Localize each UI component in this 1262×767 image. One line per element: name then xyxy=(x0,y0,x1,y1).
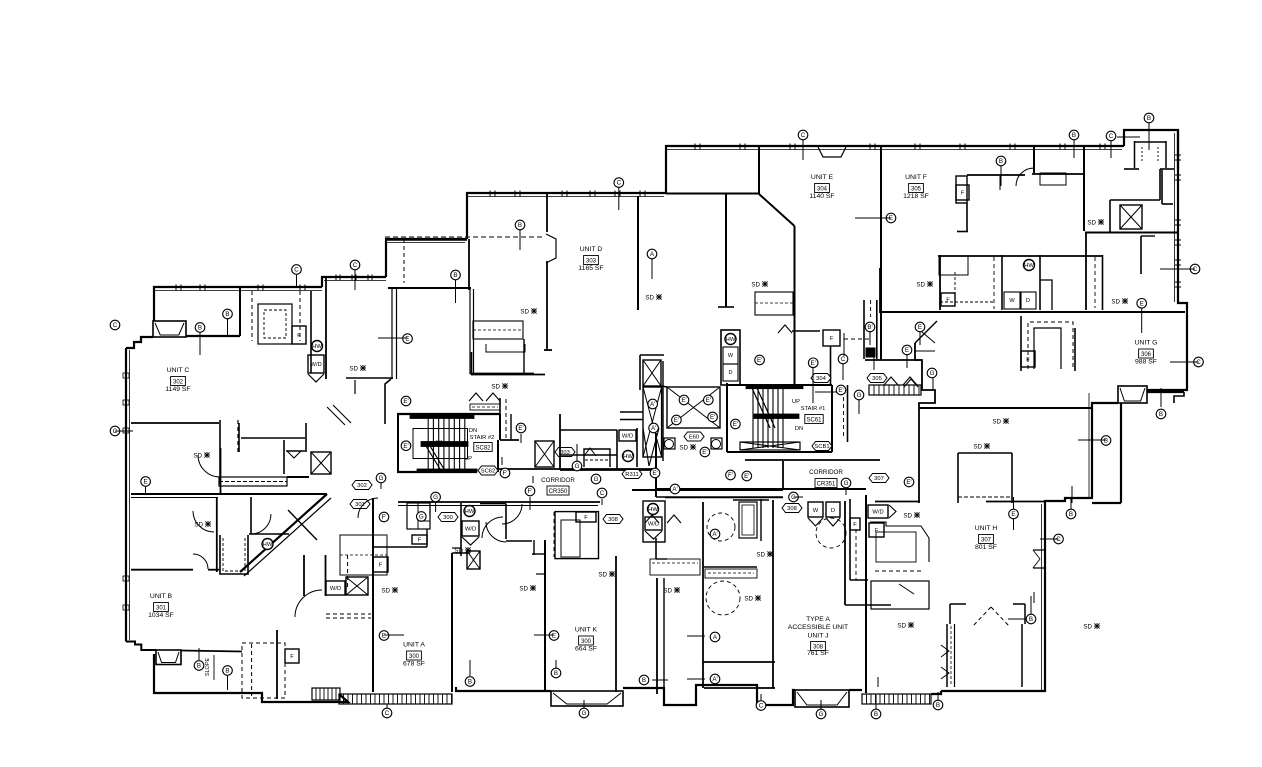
W/D unit K xyxy=(645,517,662,530)
stair #2 break diagonal xyxy=(426,446,442,472)
shelf chevron xyxy=(778,325,792,333)
leader tick xyxy=(227,319,229,337)
door arc unit A entry xyxy=(482,517,503,538)
wall x656 mid xyxy=(655,538,657,559)
grid bubble B xyxy=(223,309,233,319)
unit A dashed closet line xyxy=(860,505,862,600)
svg-text:F': F' xyxy=(503,470,508,477)
leader tick xyxy=(115,430,133,432)
svg-text:G: G xyxy=(930,370,935,377)
svg-text:E': E' xyxy=(403,398,408,405)
closet dashed y497 xyxy=(958,496,1012,498)
svg-text:STAIR #1: STAIR #1 xyxy=(801,406,826,412)
unit D bed xyxy=(473,321,523,339)
dashed x300 unit C kitchen xyxy=(299,291,301,341)
svg-text:SD: SD xyxy=(679,444,688,451)
grid bubble E' xyxy=(742,471,752,481)
svg-text:SC61: SC61 xyxy=(806,417,822,423)
svg-text:UNIT G: UNIT G xyxy=(1135,340,1158,347)
svg-text:B: B xyxy=(1072,132,1076,139)
fridge F unit K xyxy=(576,512,596,522)
closet room west wall xyxy=(471,352,473,375)
svg-text:G: G xyxy=(857,392,862,399)
svg-text:B: B xyxy=(1104,438,1108,445)
svg-text:E: E xyxy=(889,215,893,222)
leader tick xyxy=(378,337,408,339)
tub unit center-bottom xyxy=(739,502,757,538)
dashed chase x506 xyxy=(505,399,507,440)
door tag 300 xyxy=(438,513,458,522)
svg-text:1149 SF: 1149 SF xyxy=(165,386,190,393)
wall jog y204 xyxy=(1162,203,1173,205)
grid bubble B' xyxy=(865,322,875,332)
svg-text:SD: SD xyxy=(751,281,760,288)
grid bubble C xyxy=(756,701,766,711)
wall unit C / unit D (double line a) xyxy=(391,289,393,379)
grid bubble G xyxy=(431,492,441,502)
grid bubble G xyxy=(816,709,826,719)
leader tick xyxy=(198,648,200,660)
svg-text:305: 305 xyxy=(872,376,882,382)
wall y500 above tub xyxy=(733,499,769,501)
grid tick B x1072 xyxy=(1071,486,1073,503)
svg-text:G: G xyxy=(379,475,384,482)
grid bubble E xyxy=(141,477,151,487)
svg-text:CR350: CR350 xyxy=(549,489,568,495)
svg-text:HW: HW xyxy=(312,344,322,350)
svg-text:E': E' xyxy=(702,449,707,456)
grid bubble C xyxy=(838,354,848,364)
svg-text:E': E' xyxy=(706,397,711,404)
wall x427 unit A xyxy=(426,529,428,547)
wall y360 unit F bottom xyxy=(865,359,921,361)
shelf chevron xyxy=(667,515,681,523)
shelf chevron xyxy=(903,377,917,385)
W/D unit C xyxy=(308,355,324,373)
grid bubble E xyxy=(902,345,912,355)
grid bubble C xyxy=(597,488,607,498)
unit F top-right room walls xyxy=(1034,148,1085,232)
unit K kitchen room xyxy=(555,512,599,559)
svg-text:664 SF: 664 SF xyxy=(575,646,597,653)
corridor wall y412 stub xyxy=(620,411,643,413)
leader tick xyxy=(1117,136,1140,138)
wall x500 above stair2 xyxy=(499,398,501,414)
double door dashed unit H bottom xyxy=(973,607,991,626)
chase dashed x870 xyxy=(870,300,872,317)
dark chase box xyxy=(866,348,875,357)
leader tick xyxy=(1110,141,1112,158)
closet wall unit D x547 upper xyxy=(546,193,548,232)
hex tag SCB1 xyxy=(812,442,832,451)
svg-text:G: G xyxy=(819,711,824,718)
unit C HW + W/D xyxy=(310,291,312,373)
grid bubble F' xyxy=(726,470,736,480)
svg-text:B: B xyxy=(1147,115,1151,122)
grid bubble A' xyxy=(710,529,720,539)
wall unit D bedroom2 east xyxy=(725,194,727,307)
kitchen island dashed U xyxy=(1028,322,1073,369)
bath wall x1040 xyxy=(1039,255,1041,310)
grid bubble B xyxy=(1156,409,1166,419)
leader tick xyxy=(687,635,705,637)
leader tick xyxy=(420,520,430,522)
grid bubble F' xyxy=(525,486,535,496)
elevator X-box center xyxy=(667,387,720,428)
svg-text:A': A' xyxy=(650,401,655,408)
exterior wall: west wing north side xyxy=(154,287,322,321)
wall unit D living west (grid A) xyxy=(637,196,639,310)
leader tick xyxy=(687,678,705,680)
grid bubble E xyxy=(886,213,896,223)
grid bubble B xyxy=(996,156,1006,166)
wall unit K west x545 xyxy=(544,540,546,692)
svg-text:SD: SD xyxy=(897,622,906,629)
svg-text:CORRIDOR: CORRIDOR xyxy=(809,469,843,476)
porch steps unit B xyxy=(312,688,340,700)
svg-text:SC82: SC82 xyxy=(475,445,491,451)
chase dashed x1095 xyxy=(1094,257,1096,308)
leader tick xyxy=(354,270,356,290)
unit B closet dashed xyxy=(242,643,285,698)
svg-text:E': E' xyxy=(710,414,715,421)
svg-text:SCB1: SCB1 xyxy=(814,444,829,450)
wall x1141 right section xyxy=(1140,236,1142,274)
center core HW closet xyxy=(721,330,740,385)
kitchenette counter left xyxy=(650,559,700,575)
grid bubble E' xyxy=(808,358,818,368)
bay window unit K south xyxy=(551,691,623,706)
wall x306 xyxy=(305,423,307,452)
door tag 308 xyxy=(603,515,623,524)
leader tick xyxy=(520,434,522,443)
corridor CR350/351 lower walls xyxy=(656,488,783,490)
lobby door leaf xyxy=(649,428,659,466)
water heater HW unit A xyxy=(464,506,475,517)
leader tick xyxy=(815,391,837,393)
grid bubble C xyxy=(1190,264,1200,274)
hex tag SC62 xyxy=(478,466,498,475)
wall unit H west x845 xyxy=(844,501,846,605)
leader tick xyxy=(1179,268,1195,270)
stair1 break diagonal xyxy=(752,388,770,428)
door arc unit B closet xyxy=(295,590,322,617)
svg-text:SD: SD xyxy=(381,587,390,594)
wall y423 unit C lower room xyxy=(131,422,219,424)
W/D bottom center xyxy=(326,581,345,595)
grid bubble E' xyxy=(704,395,714,405)
svg-text:F: F xyxy=(297,333,301,339)
top-right stair room xyxy=(1124,130,1178,169)
svg-text:R311: R311 xyxy=(625,472,638,478)
svg-text:E': E' xyxy=(733,421,738,428)
fridge F unit G island xyxy=(1021,351,1035,367)
wall y378 unit C/D room xyxy=(346,377,393,379)
grid bubble B xyxy=(1101,436,1111,446)
leader tick xyxy=(877,677,879,687)
stair1 top edge band xyxy=(746,386,803,389)
svg-text:G: G xyxy=(575,463,580,470)
svg-text:F: F xyxy=(290,654,294,660)
leader tick xyxy=(1187,361,1199,363)
leader tick xyxy=(1008,618,1026,620)
svg-text:307: 307 xyxy=(981,537,992,543)
grid bubble E' xyxy=(700,447,710,457)
svg-text:UNIT H: UNIT H xyxy=(975,525,998,532)
wall y240 below dashed xyxy=(385,239,467,241)
fridge F unit H xyxy=(869,523,884,537)
svg-text:761 SF: 761 SF xyxy=(807,650,829,657)
water heater HW center xyxy=(725,334,736,345)
wall x1162 below top-right room xyxy=(1161,170,1163,204)
svg-text:B: B xyxy=(1029,616,1033,623)
leader tick xyxy=(875,703,877,709)
wall unit A east x452 xyxy=(451,553,453,692)
svg-text:1034 SF: 1034 SF xyxy=(148,612,174,619)
grid bubble B xyxy=(871,709,881,719)
svg-text:G: G xyxy=(791,494,796,501)
closet room y374 wall xyxy=(471,374,545,376)
grid bubble G xyxy=(591,474,601,484)
kitchen island west wall xyxy=(1020,316,1022,371)
svg-text:W/D: W/D xyxy=(330,586,341,592)
svg-text:B: B xyxy=(197,663,201,670)
wall unit F entry y175 xyxy=(967,174,1025,176)
grid bubble E xyxy=(549,631,559,641)
grid bubble B xyxy=(515,220,525,230)
unit E bed xyxy=(755,292,793,315)
svg-text:305: 305 xyxy=(911,186,922,192)
svg-text:304: 304 xyxy=(816,376,826,382)
wall x773 unit J west xyxy=(772,500,774,688)
wall unit G bedroom south y408 xyxy=(919,407,1092,409)
svg-text:SD: SD xyxy=(1083,623,1092,630)
kitchen counter unit H xyxy=(870,522,929,562)
door arc unit F top room xyxy=(1016,168,1034,186)
leader tick xyxy=(1013,497,1015,509)
grid bubble C xyxy=(798,130,808,140)
svg-text:UP: UP xyxy=(464,456,472,462)
grid bubble G xyxy=(417,512,427,522)
grid bubble G xyxy=(376,473,386,483)
closet wall x1012 xyxy=(1011,453,1013,503)
svg-text:G: G xyxy=(582,710,587,717)
svg-text:G: G xyxy=(419,514,424,521)
svg-text:F': F' xyxy=(728,472,733,479)
leader tick xyxy=(922,332,935,343)
dashed counter unit E xyxy=(844,338,869,340)
closet wall x1022 unit H xyxy=(1021,624,1023,687)
louvre diagonals right of kitchen xyxy=(327,407,345,425)
entry notch unit E top xyxy=(818,147,846,157)
grid bubble A' xyxy=(649,423,659,433)
wall unit G north y312 xyxy=(880,311,1185,313)
W/D unit A xyxy=(462,521,479,536)
leader tick xyxy=(937,694,939,700)
svg-text:C: C xyxy=(113,322,118,329)
svg-text:SD: SD xyxy=(194,521,203,528)
wall y662 A-column xyxy=(703,661,775,663)
door arc unit K entry b xyxy=(502,504,522,524)
svg-text:SD: SD xyxy=(1111,298,1120,305)
corridor CR350 south wall inner xyxy=(398,505,598,507)
stair #2 room walls xyxy=(397,413,500,415)
leader tick xyxy=(1160,388,1162,407)
svg-text:1218 SF: 1218 SF xyxy=(903,193,929,200)
leader tick xyxy=(651,259,653,279)
closet wall x947 unit H xyxy=(946,624,948,687)
kitchen dashed unit F xyxy=(940,301,994,303)
diagonal wall unit B xyxy=(240,494,327,572)
svg-text:SD: SD xyxy=(491,383,500,390)
wall unit H y605 xyxy=(845,604,891,606)
leader tick xyxy=(386,704,388,708)
svg-text:F: F xyxy=(961,191,965,197)
leader tick xyxy=(794,496,804,498)
toilet dashed circles xyxy=(707,513,735,541)
svg-text:W/D: W/D xyxy=(465,527,476,533)
svg-text:B: B xyxy=(1069,511,1073,518)
wall x656 upper xyxy=(655,433,657,497)
door arc unit C bath xyxy=(198,455,220,477)
wall x325 unit B xyxy=(325,555,327,596)
door arc right of 301 xyxy=(358,498,378,518)
stair #2 dark edge bands xyxy=(410,415,474,419)
water heater HW unit K xyxy=(648,504,659,515)
svg-text:C: C xyxy=(617,180,622,187)
svg-text:SD: SD xyxy=(425,440,434,447)
wall cap x726 xyxy=(718,306,734,308)
leader tick xyxy=(199,333,201,355)
wall unit C / unit D (double line b) xyxy=(396,289,398,379)
svg-text:A': A' xyxy=(712,676,717,683)
wall y385 room 304 xyxy=(792,384,832,386)
wall y580 unit J xyxy=(850,579,868,581)
window comb unit H south xyxy=(862,694,931,704)
leader tick xyxy=(1078,439,1106,441)
box label SC82 xyxy=(474,443,492,452)
wall x220 above corridor xyxy=(220,448,222,494)
svg-text:D: D xyxy=(1026,298,1030,304)
grid bubble E' xyxy=(755,355,765,365)
dashed x347 unit B xyxy=(347,555,349,587)
svg-text:SD: SD xyxy=(903,512,912,519)
svg-text:A': A' xyxy=(672,486,677,493)
leader tick xyxy=(858,400,860,414)
leader tick xyxy=(1030,596,1032,614)
window mullions west wall xyxy=(123,373,129,378)
grid bubble E' xyxy=(679,395,689,405)
wall y232 right section xyxy=(1085,232,1179,234)
svg-text:UNIT B: UNIT B xyxy=(150,593,173,600)
wall x616 unit K east xyxy=(615,556,617,692)
unit A entry closet xyxy=(407,503,430,529)
leader tick xyxy=(519,230,521,250)
grid bubble C xyxy=(1194,357,1204,367)
svg-text:SLOPE: SLOPE xyxy=(205,657,211,676)
wall cap x547 xyxy=(544,349,552,351)
water heater HW unit C xyxy=(312,341,323,352)
tall shaft X-box center xyxy=(643,387,662,457)
exterior wall step x=386 xyxy=(386,239,467,277)
svg-text:SD: SD xyxy=(916,281,925,288)
svg-text:C: C xyxy=(1109,133,1114,140)
svg-text:B: B xyxy=(453,272,457,279)
grid bubble G xyxy=(841,478,851,488)
leader tick xyxy=(760,694,762,700)
grid bubble G xyxy=(927,368,937,378)
kitchen block unit C xyxy=(258,304,292,344)
svg-text:C: C xyxy=(1056,536,1061,543)
grid bubble E' xyxy=(401,396,411,406)
grid bubble E' xyxy=(836,385,846,395)
kitchen island inner box xyxy=(1034,328,1061,369)
svg-text:UP: UP xyxy=(792,399,800,405)
svg-text:SD: SD xyxy=(349,365,358,372)
exterior wall wing bottom y503 xyxy=(1092,502,1121,504)
window ticks top walls xyxy=(694,144,696,150)
wall unit D/E upper xyxy=(758,147,760,194)
unit E closet walls xyxy=(725,199,727,240)
zigzag wall unit G southwest xyxy=(915,343,935,503)
bottom wall units J/K steps xyxy=(623,685,795,705)
entry door notch unit H east xyxy=(1033,550,1045,568)
svg-text:C: C xyxy=(1193,266,1198,273)
grid bubble B xyxy=(223,666,233,676)
leader tick xyxy=(435,502,437,512)
wall x663 beside shafts xyxy=(662,361,664,461)
fireplace U dashed xyxy=(223,538,245,571)
corridor north wall y469 xyxy=(498,468,656,470)
grid bubble G xyxy=(579,708,589,718)
deck hatch south unit F xyxy=(869,385,921,395)
diagonal chamfer unit E xyxy=(759,194,795,226)
leader tick xyxy=(873,357,875,370)
svg-text:E: E xyxy=(1140,300,1144,307)
svg-text:SD: SD xyxy=(663,587,672,594)
grid tick B unit F xyxy=(999,175,1001,190)
shelf chevron xyxy=(469,393,483,401)
svg-text:C: C xyxy=(841,356,846,363)
svg-text:F: F xyxy=(946,298,950,304)
svg-text:E': E' xyxy=(403,443,408,450)
dashed right of stair1 xyxy=(843,390,845,437)
svg-text:E: E xyxy=(918,324,922,331)
wall angled end below C/D wall xyxy=(385,379,391,424)
door tag 301 xyxy=(350,500,370,509)
svg-text:UNIT A: UNIT A xyxy=(403,642,425,649)
small room with chevron door xyxy=(584,449,610,467)
chamfer corner unit G kitchen xyxy=(915,321,937,343)
svg-text:W/D: W/D xyxy=(310,362,321,368)
wall unit F entry y174 right xyxy=(1032,173,1084,175)
leader tick xyxy=(583,700,585,708)
exterior wall units E F top xyxy=(666,146,1124,193)
svg-text:E': E' xyxy=(518,425,523,432)
bath wall x1086 xyxy=(1085,232,1087,310)
diagonal partition perpendicular xyxy=(288,510,317,540)
shaft X-box top right xyxy=(1120,205,1142,229)
wall right of stair1 xyxy=(847,385,849,442)
svg-text:SD: SD xyxy=(193,452,202,459)
exterior wall wing x1121 xyxy=(1120,403,1122,503)
bottom wall unit B exterior xyxy=(154,654,348,702)
svg-text:G: G xyxy=(594,476,599,483)
svg-text:W: W xyxy=(728,353,734,359)
grid bubble E xyxy=(915,322,925,332)
svg-text:E: E xyxy=(905,347,909,354)
svg-text:A': A' xyxy=(712,531,717,538)
